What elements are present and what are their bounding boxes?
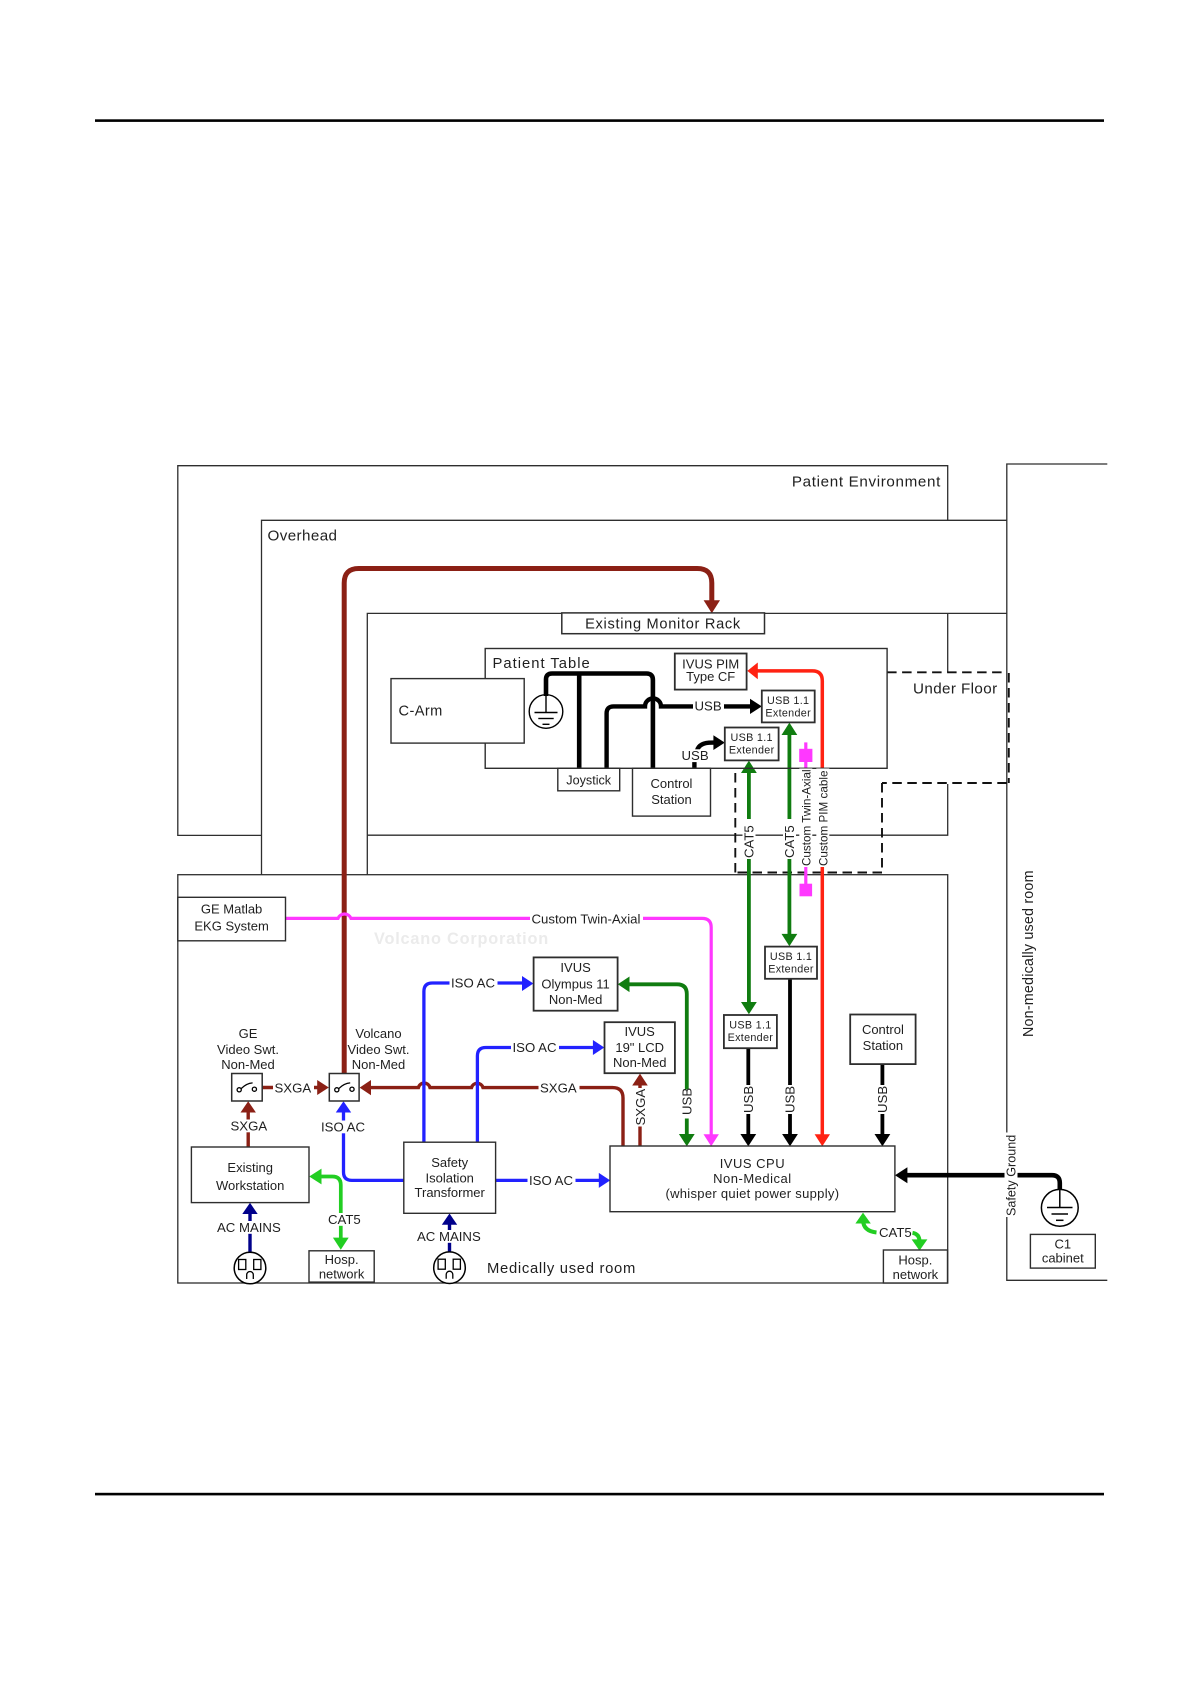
- svg-text:IVUS: IVUS: [625, 1024, 656, 1039]
- svg-text:USB: USB: [741, 1086, 756, 1113]
- box IVUS 19 LCD Non-Med: [605, 1022, 675, 1073]
- label USB rotated control station wire: [876, 1085, 889, 1114]
- box Existing Workstation: [191, 1147, 309, 1203]
- box C1 cabinet: [1030, 1234, 1095, 1268]
- AC outlet symbol right: [434, 1252, 466, 1284]
- svg-text:Custom PIM cable: Custom PIM cable: [817, 771, 830, 866]
- label USB rotated extender upper wire: [784, 1085, 797, 1114]
- svg-text:Hosp.: Hosp.: [325, 1252, 359, 1267]
- box Volcano video switch: [329, 1074, 359, 1102]
- label SXGA workstation wire: [229, 1120, 270, 1133]
- svg-text:SXGA: SXGA: [275, 1080, 312, 1095]
- under floor dashed boundary left lower: [734, 768, 736, 872]
- label USB rotated extender lower wire: [742, 1085, 755, 1114]
- wire ground: patient table ground network (thick black): [546, 674, 653, 769]
- box Joystick: [558, 768, 620, 791]
- svg-text:ISO AC: ISO AC: [513, 1040, 557, 1055]
- svg-text:Joystick: Joystick: [566, 774, 611, 788]
- svg-text:Control: Control: [651, 776, 693, 791]
- label Safety Ground rotated: [1005, 1133, 1018, 1218]
- label Custom PIM cable rotated: [816, 769, 829, 868]
- wire SXGA IVUS CPU to IVUS 19 LCD (dark red, arrow up): [632, 1074, 648, 1146]
- svg-text:Video Swt.: Video Swt.: [348, 1042, 410, 1057]
- svg-text:Under Floor: Under Floor: [913, 681, 998, 698]
- svg-text:C-Arm: C-Arm: [399, 704, 443, 720]
- label Custom Twin-Axial rotated: [799, 769, 812, 868]
- box USB 1.1 Extender room upper: [765, 947, 817, 979]
- svg-text:SXGA: SXGA: [540, 1080, 577, 1095]
- under floor dashed boundary right: [1008, 673, 1010, 783]
- label ISO AC cpu wire: [528, 1174, 576, 1187]
- svg-text:C1: C1: [1054, 1237, 1071, 1252]
- wire CAT5 link patient-table lower extender to room extender (dark green, arrows both ends): [741, 761, 757, 1015]
- wire SXGA IVUS CPU to Volcano video switch (dark red, bumps over blue wires): [360, 1080, 623, 1146]
- svg-text:Non-Med: Non-Med: [352, 1057, 405, 1072]
- box IVUS PIM Type CF: [675, 654, 747, 690]
- svg-text:IVUS CPU: IVUS CPU: [720, 1156, 785, 1171]
- wire ISO AC transformer to IVUS CPU (blue): [496, 1173, 611, 1188]
- switch symbol inside GE video switch: [237, 1083, 256, 1092]
- svg-text:USB: USB: [682, 748, 709, 763]
- label CAT5 rotated right: [783, 819, 796, 859]
- svg-text:CAT5: CAT5: [879, 1225, 912, 1240]
- svg-text:Video Swt.: Video Swt.: [217, 1042, 279, 1057]
- label ISO AC olympus wire: [450, 977, 498, 990]
- wire USB room upper extender to IVUS CPU (black): [782, 979, 798, 1147]
- box Hosp network left: [309, 1251, 374, 1282]
- wire USB control station to lower USB extender (curved black arrow): [694, 735, 724, 768]
- svg-text:Extender: Extender: [728, 1032, 774, 1044]
- under floor dashed boundary bottom: [735, 872, 882, 874]
- svg-text:GE: GE: [239, 1026, 258, 1041]
- label AC MAINS left: [216, 1221, 285, 1234]
- wire Custom Twin-Axial (magenta) GE EKG to IVUS CPU, bump over dark red cable: [286, 914, 719, 1146]
- box Control Station patient table: [633, 768, 711, 816]
- label SXGA cpu-volcano wire: [539, 1082, 580, 1095]
- svg-text:CAT5: CAT5: [742, 825, 757, 858]
- svg-text:ISO AC: ISO AC: [529, 1173, 573, 1188]
- svg-text:USB 1.1: USB 1.1: [770, 951, 812, 963]
- label USB joystick wire: [693, 700, 724, 713]
- svg-text:Olympus 11: Olympus 11: [541, 977, 609, 992]
- svg-text:USB 1.1: USB 1.1: [729, 1020, 771, 1032]
- svg-text:Station: Station: [863, 1038, 903, 1053]
- wire USB control station (room) to IVUS CPU (black): [875, 1064, 891, 1146]
- svg-text:IVUS: IVUS: [560, 960, 591, 975]
- svg-text:Volcano: Volcano: [355, 1026, 401, 1041]
- svg-text:Hosp.: Hosp.: [898, 1253, 932, 1268]
- room Existing Monitor Rack bottom edge: [367, 784, 947, 835]
- room Non-medically used room outline: [1007, 464, 1108, 1280]
- svg-text:ISO AC: ISO AC: [321, 1120, 365, 1135]
- box Existing Monitor Rack label: [562, 613, 765, 634]
- wire CAT5 link patient-table upper extender to room upper extender (dark green, arrows both ends): [782, 723, 798, 947]
- svg-text:CAT5: CAT5: [782, 825, 797, 858]
- label Custom Twin-Axial horizontal wire: [530, 912, 643, 925]
- wire USB joystick to USB extender (thick black, bump over ground wire): [607, 698, 762, 768]
- box Hosp network right: [883, 1250, 947, 1283]
- svg-text:Medically used room: Medically used room: [487, 1261, 636, 1277]
- svg-text:USB: USB: [695, 699, 722, 714]
- box USB 1.1 Extender patient table lower: [725, 728, 779, 761]
- room Medically used room outline: [178, 875, 948, 1283]
- AC outlet symbol left: [234, 1252, 266, 1284]
- svg-text:AC MAINS: AC MAINS: [217, 1220, 281, 1235]
- svg-text:Safety Ground: Safety Ground: [1005, 1135, 1019, 1216]
- svg-text:GE Matlab: GE Matlab: [201, 902, 262, 917]
- svg-text:Extender: Extender: [765, 707, 811, 719]
- room Overhead outline: [262, 520, 1007, 874]
- label ISO AC lcd wire: [511, 1041, 559, 1054]
- svg-text:USB 1.1: USB 1.1: [731, 732, 773, 744]
- svg-text:Extender: Extender: [729, 745, 775, 757]
- label CAT5 workstation link: [327, 1213, 364, 1226]
- wire CAT5 workstation to hospital network (bright green): [309, 1169, 349, 1250]
- under floor dashed boundary left upper: [881, 783, 883, 873]
- ground symbol patient table: [529, 695, 563, 729]
- svg-text:Isolation: Isolation: [425, 1171, 473, 1186]
- box IVUS CPU: [610, 1146, 895, 1212]
- wire ISO AC transformer to IVUS 19 LCD (blue): [477, 1040, 604, 1142]
- svg-text:Volcano Corporation: Volcano Corporation: [374, 930, 549, 948]
- svg-text:USB 1.1: USB 1.1: [767, 695, 809, 707]
- svg-text:USB: USB: [680, 1088, 695, 1115]
- svg-text:network: network: [893, 1267, 939, 1282]
- wire AC MAINS outlet to transformer (navy): [442, 1214, 457, 1253]
- svg-text:Non-Med: Non-Med: [613, 1055, 666, 1070]
- svg-text:Workstation: Workstation: [216, 1178, 284, 1193]
- svg-text:USB: USB: [783, 1086, 798, 1113]
- svg-text:AC MAINS: AC MAINS: [417, 1229, 481, 1244]
- svg-text:Custom Twin-Axial: Custom Twin-Axial: [532, 911, 641, 926]
- wire Safety Ground C1 cabinet to IVUS CPU (thick black): [895, 1167, 1060, 1190]
- wire ISO AC transformer to IVUS Olympus (blue): [424, 976, 534, 1142]
- wire SXGA GE switch to Volcano switch (dark red): [262, 1080, 329, 1095]
- svg-text:network: network: [319, 1267, 365, 1282]
- svg-text:ISO AC: ISO AC: [451, 976, 495, 991]
- label ISO AC volcano wire: [320, 1121, 368, 1134]
- svg-text:Safety: Safety: [431, 1155, 468, 1170]
- svg-text:Overhead: Overhead: [268, 528, 338, 545]
- wire USB IVUS CPU to IVUS Olympus monitor (dark green): [618, 977, 695, 1147]
- svg-text:Non-Med: Non-Med: [221, 1057, 274, 1072]
- under floor dashed boundary middle: [882, 782, 1007, 784]
- under floor dashed boundary top: [887, 671, 1007, 673]
- wire SXGA workstation to GE switch (dark red, arrow up): [241, 1101, 256, 1147]
- room Existing Monitor Rack right edge segment: [947, 613, 949, 672]
- svg-text:Patient Table: Patient Table: [493, 656, 591, 672]
- box Patient Table: [485, 649, 887, 769]
- box IVUS Olympus 11 Non-Med: [534, 957, 618, 1010]
- svg-text:Custom Twin-Axial: Custom Twin-Axial: [800, 769, 813, 866]
- svg-text:Non-Medical: Non-Medical: [713, 1171, 791, 1186]
- svg-text:Station: Station: [651, 792, 691, 807]
- svg-text:CAT5: CAT5: [328, 1212, 361, 1227]
- label CAT5 rotated left: [743, 819, 756, 859]
- box C-Arm: [391, 679, 524, 744]
- wire SXGA cable Volcano switch to Monitor Rack (thick dark red overhead cable): [344, 569, 720, 1074]
- box GE Matlab EKG System: [178, 897, 286, 941]
- svg-text:19" LCD: 19" LCD: [615, 1040, 664, 1055]
- ground symbol C1 cabinet: [1041, 1189, 1078, 1226]
- box Safety Isolation Transformer: [404, 1142, 496, 1213]
- wire AC MAINS outlet to workstation (navy): [242, 1203, 257, 1253]
- svg-text:cabinet: cabinet: [1042, 1251, 1084, 1266]
- label SXGA between switches: [273, 1082, 314, 1095]
- label SXGA rotated lcd wire: [634, 1088, 647, 1127]
- wire Custom PIM cable (red) from IVUS PIM to IVUS CPU: [747, 663, 830, 1147]
- label USB rotated dark green wire: [681, 1090, 694, 1119]
- svg-text:Transformer: Transformer: [415, 1185, 486, 1200]
- wire CAT5 IVUS CPU to hospital network (bright green curved): [855, 1213, 927, 1251]
- svg-text:Control: Control: [862, 1022, 904, 1037]
- svg-text:USB: USB: [875, 1086, 890, 1113]
- wire Custom Twin-Axial connector stubs (magenta) below IVUS PIM: [799, 742, 812, 896]
- svg-text:Existing Monitor Rack: Existing Monitor Rack: [585, 617, 741, 633]
- label AC MAINS right: [416, 1230, 485, 1243]
- box USB 1.1 Extender patient table upper: [762, 691, 815, 723]
- box Control Station room: [850, 1015, 915, 1065]
- svg-text:EKG System: EKG System: [194, 919, 268, 934]
- top horizontal rule: [95, 119, 1104, 122]
- room Existing Monitor Rack outline: [367, 613, 1007, 874]
- svg-text:(whisper quiet power supply): (whisper quiet power supply): [665, 1186, 839, 1201]
- svg-text:Non-Med: Non-Med: [549, 992, 602, 1007]
- svg-text:Non-medically used room: Non-medically used room: [1021, 870, 1037, 1037]
- svg-text:Patient Environment: Patient Environment: [792, 474, 941, 491]
- svg-text:SXGA: SXGA: [633, 1089, 648, 1126]
- svg-text:Type CF: Type CF: [686, 669, 735, 684]
- switch symbol inside Volcano video switch: [335, 1083, 354, 1092]
- wire USB room lower extender to IVUS CPU (black): [740, 1048, 756, 1146]
- svg-text:Existing: Existing: [227, 1160, 273, 1175]
- room Patient Environment outline: [178, 466, 948, 836]
- bottom horizontal rule: [95, 1493, 1104, 1496]
- wire ISO AC transformer to Volcano switch (blue): [336, 1101, 404, 1180]
- label USB control station wire: [680, 749, 711, 762]
- box USB 1.1 Extender room lower: [724, 1015, 777, 1048]
- svg-text:SXGA: SXGA: [231, 1119, 268, 1134]
- box GE video switch: [232, 1074, 263, 1102]
- svg-text:Extender: Extender: [768, 964, 814, 976]
